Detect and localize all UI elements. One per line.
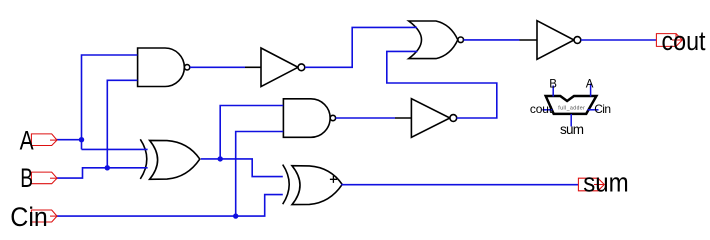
svg-text:Cin: Cin xyxy=(10,202,48,228)
svg-text:sum: sum xyxy=(583,168,629,198)
svg-text:Cin: Cin xyxy=(594,102,611,116)
svg-text:A: A xyxy=(586,79,594,91)
svg-text:A: A xyxy=(20,126,34,156)
svg-text:sum: sum xyxy=(560,122,584,137)
svg-text:B: B xyxy=(549,79,557,91)
svg-text:full_adder: full_adder xyxy=(558,105,585,111)
svg-text:cout: cout xyxy=(530,102,553,116)
svg-text:cout: cout xyxy=(662,26,707,56)
svg-text:B: B xyxy=(20,163,33,193)
